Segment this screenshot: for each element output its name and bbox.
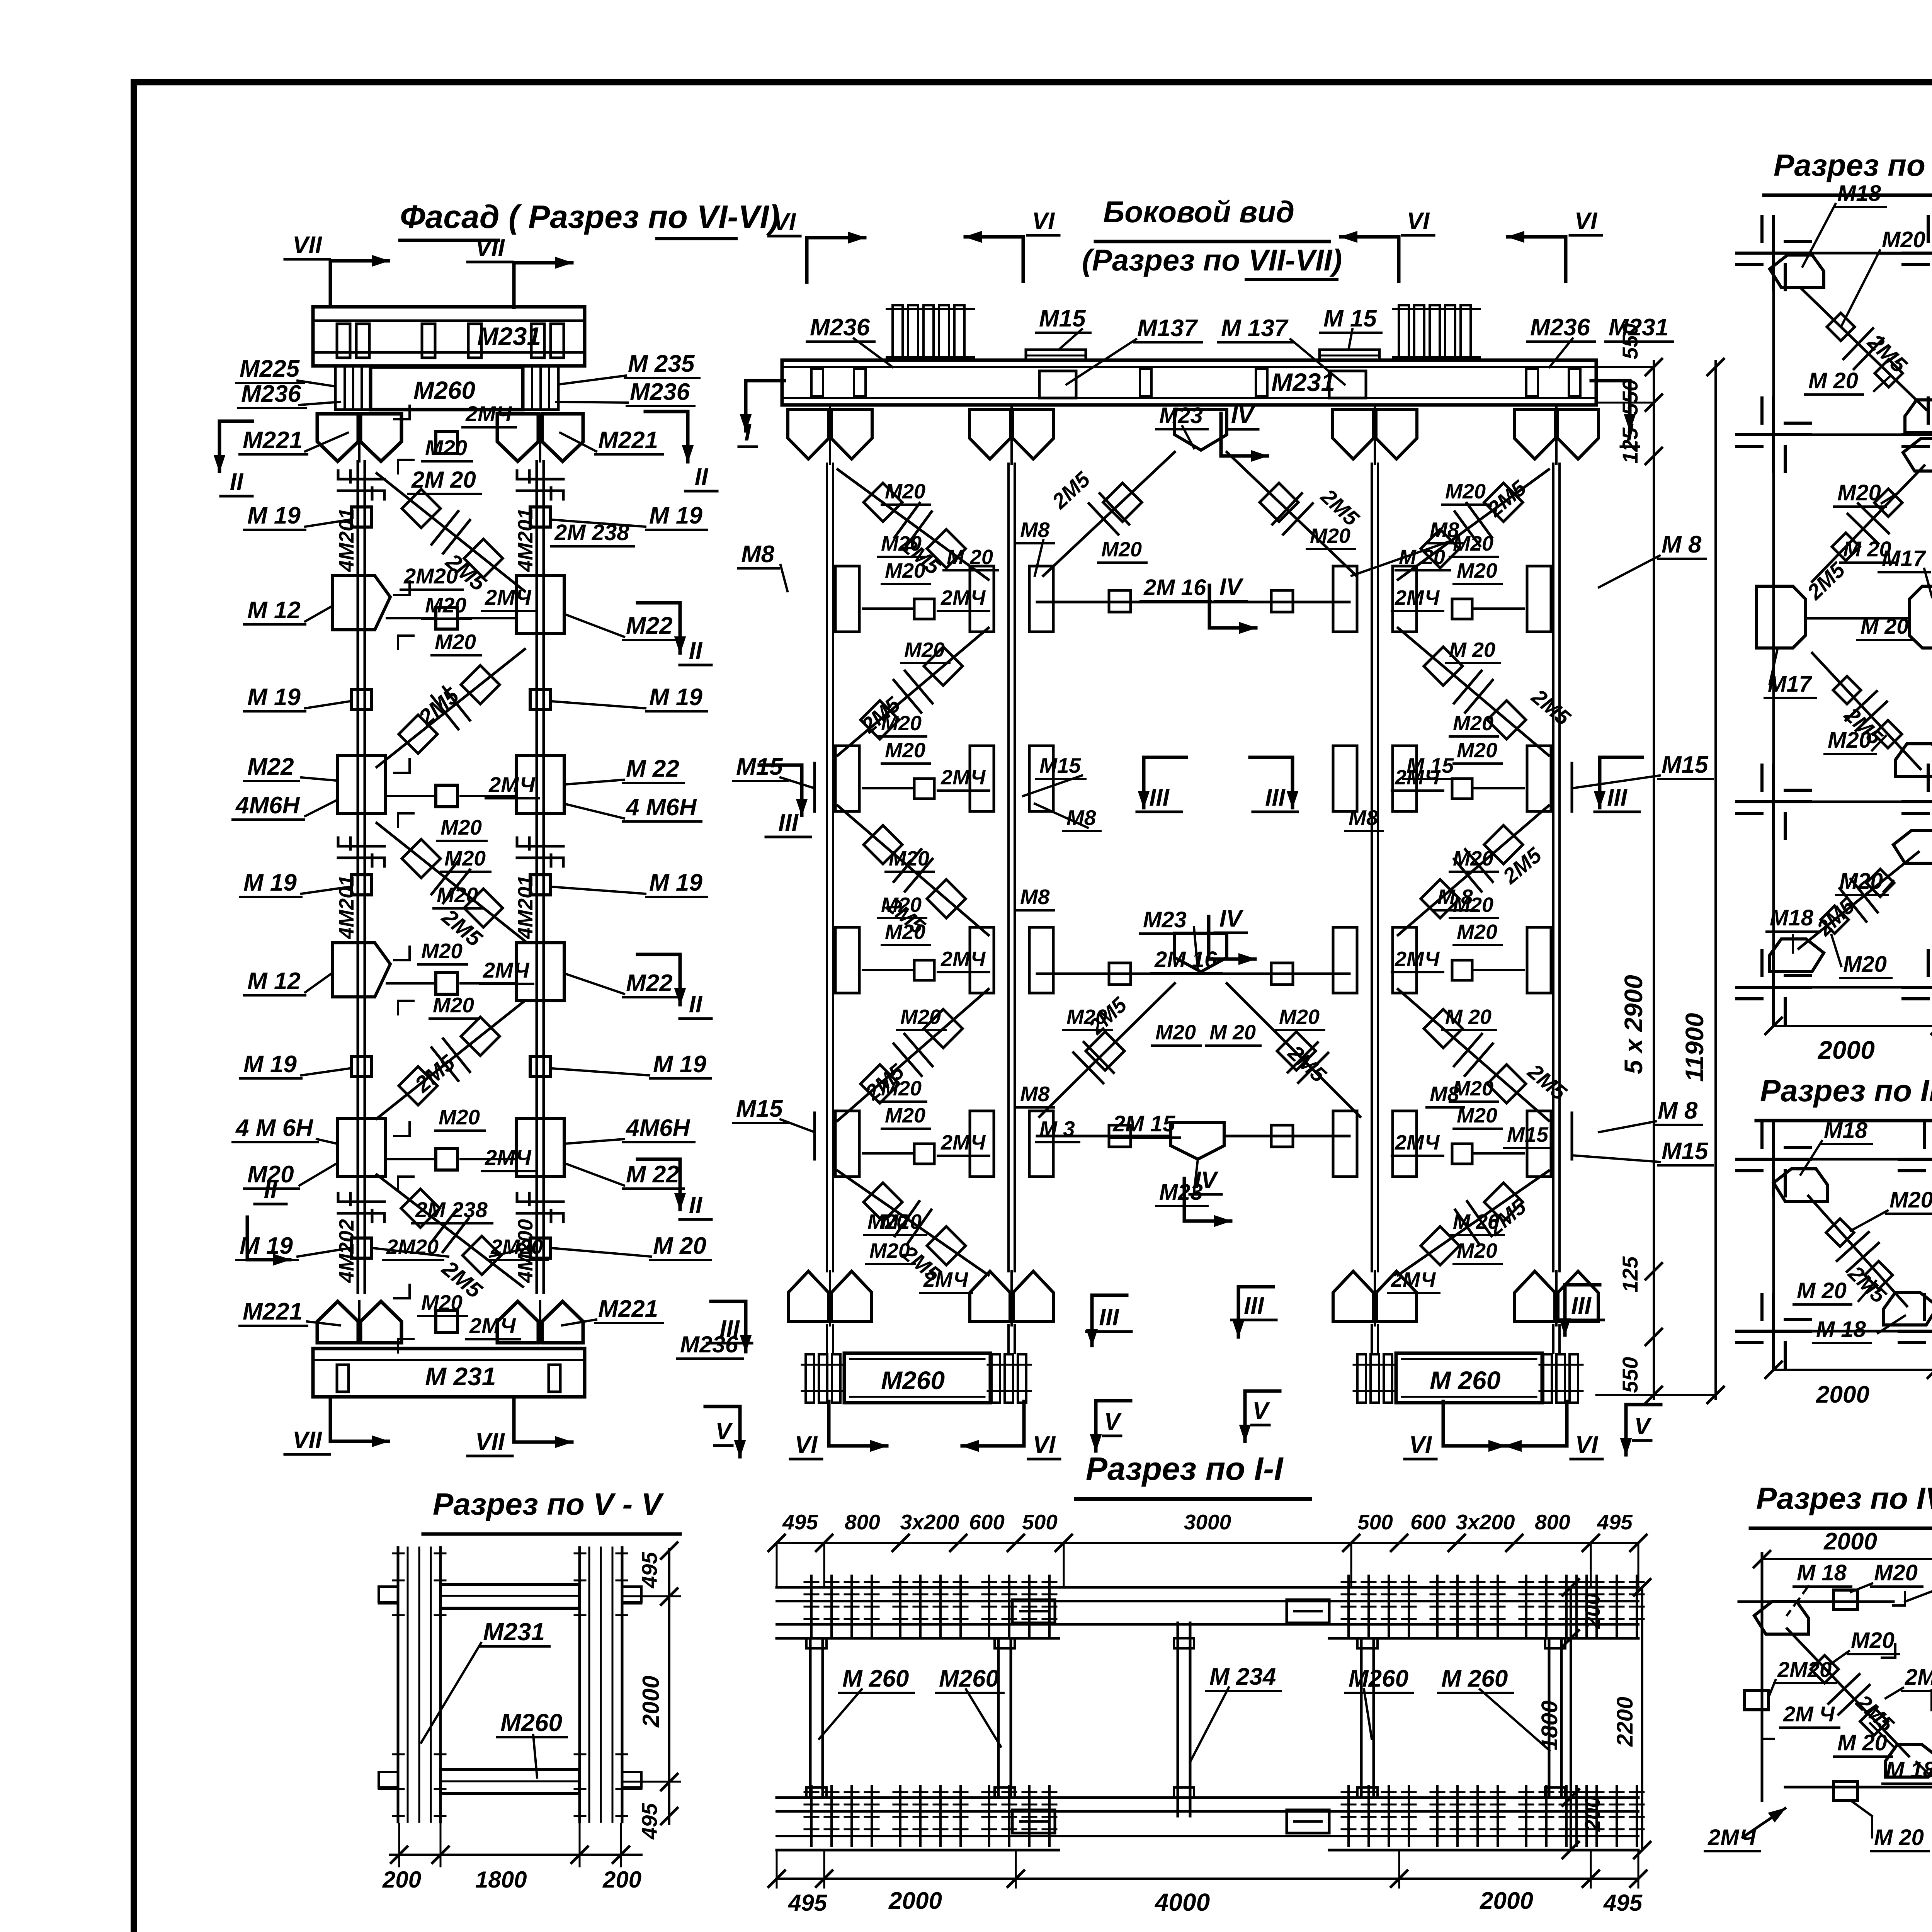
svg-text:II: II xyxy=(689,1192,703,1219)
connector 2МЧ mid xyxy=(436,973,457,994)
svg-text:Разрез по III-III: Разрез по III-III xyxy=(1760,1073,1932,1108)
diagonal brace 2М5 right panel 3 (Боковой вид) xyxy=(1398,806,1549,935)
svg-text:М221: М221 xyxy=(243,427,303,454)
svg-text:М20: М20 xyxy=(869,1239,910,1262)
node М20 on brace xyxy=(927,1226,966,1265)
М18 pad a xyxy=(1770,255,1824,287)
svg-text:4М200: 4М200 xyxy=(514,1219,537,1283)
svg-text:2М 238: 2М 238 xyxy=(415,1197,488,1222)
connector 2МЧ mid xyxy=(436,1148,457,1170)
svg-text:М18: М18 xyxy=(1770,905,1814,930)
svg-text:М260: М260 xyxy=(881,1366,945,1395)
svg-text:600: 600 xyxy=(969,1510,1005,1534)
horizontal strut row xyxy=(387,617,433,619)
svg-text:4М201: 4М201 xyxy=(335,875,358,939)
I-I splice connectors middle xyxy=(1012,1600,1055,1623)
svg-text:2М20: 2М20 xyxy=(1777,1657,1832,1682)
svg-text:М 19: М 19 xyxy=(649,869,702,896)
svg-text:М15: М15 xyxy=(1039,753,1081,777)
section II-II diagonal 3 xyxy=(1812,653,1920,769)
svg-text:125: 125 xyxy=(1618,1256,1642,1293)
svg-text:2М20: 2М20 xyxy=(403,564,458,588)
column splice symbols xyxy=(338,845,384,848)
node М20 on brace xyxy=(924,647,963,685)
svg-text:М23: М23 xyxy=(1143,907,1187,932)
node М20 on diagonal xyxy=(461,665,500,704)
svg-text:II: II xyxy=(264,1177,278,1203)
svg-text:М8: М8 xyxy=(1430,1082,1459,1106)
bearing block М221 right (bell pair) xyxy=(497,414,538,461)
svg-text:Разрез по II-II: Разрез по II-II xyxy=(1774,148,1932,182)
svg-text:800: 800 xyxy=(1535,1510,1570,1534)
svg-text:М8: М8 xyxy=(1349,806,1378,830)
svg-text:4М201: 4М201 xyxy=(514,875,537,939)
svg-text:М20: М20 xyxy=(1874,1560,1918,1585)
node М20 on brace xyxy=(1421,529,1459,568)
svg-text:М 18: М 18 xyxy=(1797,1560,1847,1585)
svg-text:М15: М15 xyxy=(1507,1122,1549,1146)
svg-text:М 20: М 20 xyxy=(947,546,993,569)
svg-text:М20: М20 xyxy=(1445,480,1486,503)
svg-text:550: 550 xyxy=(1618,379,1642,415)
svg-text:Разрез по V - V: Разрез по V - V xyxy=(433,1487,664,1521)
horizontal strut 2М16 level1 xyxy=(1037,601,1349,604)
jack element М15 (right) xyxy=(1320,350,1379,361)
М18 pad f xyxy=(1770,939,1824,971)
svg-text:М 20: М 20 xyxy=(1808,368,1858,393)
dimension 5x2900 / 11900 right of middle view xyxy=(1653,361,1655,1399)
I-I top dimension line xyxy=(777,1542,1638,1544)
diagonal brace 2М5 left panel 4 (Боковой вид) xyxy=(838,989,988,1121)
svg-text:200: 200 xyxy=(602,1867,641,1893)
svg-text:II: II xyxy=(689,638,703,664)
svg-text:М20: М20 xyxy=(1457,739,1497,762)
III-III diagonal xyxy=(1808,1196,1907,1306)
diagonal brace 2М5 right panel 2 (Боковой вид) xyxy=(1398,628,1549,755)
I-I right dims xyxy=(1570,1587,1572,1850)
svg-text:М221: М221 xyxy=(598,1296,658,1322)
svg-text:М 20: М 20 xyxy=(1445,1005,1492,1029)
svg-text:VII: VII xyxy=(475,235,505,261)
svg-text:М20: М20 xyxy=(421,939,463,963)
node М20 on brace xyxy=(927,529,966,568)
svg-text:М 231: М 231 xyxy=(425,1362,496,1391)
svg-text:2МЧ: 2МЧ xyxy=(465,401,512,426)
svg-text:М18: М18 xyxy=(1837,181,1881,206)
svg-text:Разрез по I-I: Разрез по I-I xyxy=(1086,1451,1284,1487)
svg-text:М8: М8 xyxy=(741,541,775,568)
node М20 on brace xyxy=(1487,701,1526,739)
svg-text:5 х 2900: 5 х 2900 xyxy=(1619,975,1648,1074)
cap beam М231 (Боковой вид) xyxy=(782,360,1596,405)
svg-text:2М5: 2М5 xyxy=(1316,484,1364,531)
jack element М15 (left) xyxy=(1026,350,1086,361)
I-beam pile cluster above beam (left) xyxy=(893,305,903,359)
corner cross xyxy=(1737,986,1810,989)
svg-text:200: 200 xyxy=(382,1867,421,1893)
V-V column group flange ticks xyxy=(393,1553,404,1554)
svg-text:М15: М15 xyxy=(1039,305,1086,332)
svg-text:М8: М8 xyxy=(1020,1082,1050,1106)
node М20 on brace xyxy=(1487,1065,1526,1103)
svg-text:М260: М260 xyxy=(1349,1665,1408,1692)
svg-text:495: 495 xyxy=(788,1890,828,1916)
svg-text:1800: 1800 xyxy=(475,1867,527,1893)
svg-text:2М5: 2М5 xyxy=(1498,842,1546,888)
node М20 on brace xyxy=(864,1183,902,1221)
svg-text:М20: М20 xyxy=(1457,559,1497,582)
V-V bottom beam М260 xyxy=(440,1770,580,1794)
gusset М22 left column xyxy=(337,755,385,813)
bearing block М221 bottom-left (bell pair) xyxy=(317,1301,358,1343)
svg-text:3000: 3000 xyxy=(1184,1510,1231,1534)
svg-text:495: 495 xyxy=(1597,1510,1633,1534)
node М20 xyxy=(1874,720,1902,748)
connector М19 right column xyxy=(530,1056,550,1077)
centre V brace lower left xyxy=(1039,983,1175,1117)
svg-text:М 20: М 20 xyxy=(1453,1210,1499,1233)
svg-text:4 М 6Н: 4 М 6Н xyxy=(235,1115,313,1141)
node М20 on brace xyxy=(1424,647,1463,685)
svg-text:2МЧ: 2МЧ xyxy=(485,1145,532,1170)
I-I I-beam tick clusters top xyxy=(810,1576,813,1636)
М18 pad b xyxy=(1905,400,1932,432)
svg-text:М 8: М 8 xyxy=(1658,1097,1698,1124)
svg-text:М8: М8 xyxy=(1020,518,1050,542)
М18 pad tl xyxy=(1774,1169,1828,1201)
node М20 on brace xyxy=(1484,483,1523,522)
gusset М22 left column xyxy=(337,1119,385,1177)
svg-text:III: III xyxy=(1149,784,1170,811)
hanger bell М23 centre top xyxy=(1175,410,1227,450)
svg-text:VII: VII xyxy=(293,1427,323,1454)
cap beam М231 (top, left view) xyxy=(313,307,585,366)
svg-text:М 12: М 12 xyxy=(247,597,301,624)
svg-text:М225: М225 xyxy=(240,355,300,382)
svg-text:2000: 2000 xyxy=(1823,1528,1877,1555)
svg-text:VI: VI xyxy=(795,1432,818,1458)
svg-text:М 19: М 19 xyxy=(247,684,301,711)
V-V outer tabs xyxy=(379,1587,398,1602)
svg-text:3х200: 3х200 xyxy=(1456,1510,1515,1534)
svg-text:М 8: М 8 xyxy=(1662,531,1702,558)
node М20 on diagonal xyxy=(402,839,440,878)
svg-text:М137: М137 xyxy=(1137,315,1198,342)
hanger bell М23 level3 centre xyxy=(1175,933,1227,972)
connector М19 left column xyxy=(351,1056,371,1077)
gusset М12 left column xyxy=(332,576,390,630)
connector 2МЧ mid xyxy=(436,785,457,807)
centre V brace upper left xyxy=(1043,452,1175,576)
svg-text:2МЧ: 2МЧ xyxy=(1708,1825,1757,1850)
svg-text:125: 125 xyxy=(1618,427,1642,464)
section II-II diagonal 4 xyxy=(1799,852,1918,949)
svg-text:2МЧ: 2МЧ xyxy=(1905,1665,1932,1690)
diagonal brace 2М5 panel 4 (Фасад) xyxy=(377,1001,525,1119)
svg-text:М20: М20 xyxy=(889,847,929,870)
svg-text:2000: 2000 xyxy=(1817,1036,1875,1064)
svg-text:II: II xyxy=(689,991,703,1018)
М18 pad e xyxy=(1893,831,1932,863)
diagonal brace 2М5 panel 5 (Фасад) xyxy=(377,1175,523,1287)
svg-text:495: 495 xyxy=(782,1510,818,1534)
svg-text:V: V xyxy=(715,1418,733,1445)
corner cross xyxy=(1737,252,1810,255)
node М20 xyxy=(1875,359,1903,387)
svg-text:М 20: М 20 xyxy=(1861,614,1909,638)
bearing block М221 left (bell pair) xyxy=(317,414,358,461)
svg-text:М221: М221 xyxy=(243,1298,303,1325)
svg-text:М20: М20 xyxy=(1828,728,1871,753)
svg-text:М 19: М 19 xyxy=(247,502,301,529)
diagonal brace 2М5 left panel 2 (Боковой вид) xyxy=(838,628,988,755)
svg-text:М 20: М 20 xyxy=(1399,546,1445,569)
horizontal strut row xyxy=(387,1158,433,1160)
svg-text:2М 16: 2М 16 xyxy=(1143,575,1206,600)
svg-text:IV: IV xyxy=(1219,905,1244,932)
connector М19 right column xyxy=(530,507,550,527)
diagonal brace 2М5 left panel 5 (Боковой вид) xyxy=(838,1171,988,1275)
2МЧ connector squares level xyxy=(914,599,934,619)
horizontal strut 2М15 level4 xyxy=(1037,1135,1171,1138)
svg-text:495: 495 xyxy=(1603,1890,1643,1916)
М8 gusset row level 3 xyxy=(835,927,859,993)
svg-text:2МЧ: 2МЧ xyxy=(483,958,530,982)
svg-text:495: 495 xyxy=(637,1803,662,1840)
svg-text:600: 600 xyxy=(1410,1510,1446,1534)
svg-text:М 22: М 22 xyxy=(626,1161,679,1188)
gusset М22 right column xyxy=(516,755,564,813)
svg-text:М20: М20 xyxy=(440,815,482,839)
V-V left column group (I-beam plan) xyxy=(397,1548,400,1822)
2МЧ connector squares level xyxy=(914,779,934,799)
svg-text:М 235: М 235 xyxy=(628,350,695,377)
svg-text:М20: М20 xyxy=(1889,1187,1932,1213)
section II-II level lines xyxy=(1747,252,1932,255)
svg-text:М20: М20 xyxy=(433,993,474,1017)
svg-text:2МЧ: 2МЧ xyxy=(940,766,986,789)
svg-text:М236: М236 xyxy=(241,381,301,407)
svg-text:VII: VII xyxy=(475,1429,505,1455)
svg-text:М20: М20 xyxy=(425,435,467,460)
svg-text:1800: 1800 xyxy=(1537,1701,1562,1750)
svg-text:4М202: 4М202 xyxy=(335,1219,358,1283)
I-beam stacks beside М260 bases xyxy=(806,1354,814,1403)
right column of tower (Фасад) xyxy=(536,461,538,1293)
connector М19 left column xyxy=(351,507,371,527)
М8 gusset row level 1 xyxy=(835,566,859,632)
column 2 (Боковой вид) xyxy=(1007,464,1010,1271)
М18 pad d xyxy=(1895,744,1932,776)
node М20 on brace xyxy=(924,1009,963,1048)
svg-text:II: II xyxy=(695,464,709,490)
jack element М137 (left) xyxy=(1039,371,1076,398)
svg-text:М 137: М 137 xyxy=(1221,315,1289,342)
svg-text:М20: М20 xyxy=(1453,712,1493,735)
svg-text:IV: IV xyxy=(1231,402,1255,429)
node М20 xyxy=(1833,676,1861,704)
М18 pad c xyxy=(1903,439,1932,471)
section III-III frame xyxy=(1772,1138,1775,1360)
svg-text:2М5: 2М5 xyxy=(1527,684,1575,730)
svg-text:11900: 11900 xyxy=(1680,1013,1709,1082)
column stubs into base blocks xyxy=(826,1325,828,1353)
svg-text:М20: М20 xyxy=(1882,227,1925,252)
svg-text:М 20: М 20 xyxy=(1874,1825,1924,1850)
svg-text:2МЧ: 2МЧ xyxy=(940,586,986,609)
node М20 on brace xyxy=(1424,1009,1463,1048)
svg-text:III: III xyxy=(1244,1293,1264,1319)
svg-text:М 234: М 234 xyxy=(1209,1663,1276,1690)
node М20 on diagonal xyxy=(399,1066,437,1105)
2МЧ connector squares level xyxy=(914,960,934,980)
svg-text:М 20: М 20 xyxy=(1449,638,1495,662)
node М20 on diagonal xyxy=(463,1236,501,1275)
svg-text:М15: М15 xyxy=(1662,1138,1709,1165)
corner cross xyxy=(1737,433,1810,436)
svg-text:V: V xyxy=(1252,1398,1270,1424)
М8 gusset row level 4 xyxy=(835,1111,859,1177)
svg-text:М 260: М 260 xyxy=(1430,1366,1501,1395)
svg-text:М 260: М 260 xyxy=(1441,1665,1508,1692)
svg-text:2М5: 2М5 xyxy=(1523,1059,1571,1105)
svg-text:III: III xyxy=(1571,1293,1592,1319)
svg-text:2МЧ: 2МЧ xyxy=(923,1268,969,1291)
svg-text:2М5: 2М5 xyxy=(1802,557,1850,604)
svg-text:4М6Н: 4М6Н xyxy=(235,792,300,819)
base block М260 (left pair) xyxy=(844,1353,990,1403)
svg-text:М260: М260 xyxy=(500,1709,562,1736)
svg-text:2МЧ: 2МЧ xyxy=(1395,1131,1440,1154)
base block М260 (right pair) xyxy=(1396,1353,1542,1403)
I-I columns М260/М234 xyxy=(809,1638,812,1798)
gusset М22 right column xyxy=(516,576,564,634)
svg-text:4000: 4000 xyxy=(1154,1888,1210,1916)
svg-text:М 22: М 22 xyxy=(626,755,679,782)
svg-text:М15: М15 xyxy=(1662,752,1709,778)
node М20 xyxy=(1832,533,1860,561)
dim 2000 bottom (III-III) xyxy=(1774,1369,1932,1371)
svg-text:М20: М20 xyxy=(1101,538,1142,561)
connector М20 squares bottom row xyxy=(351,1238,371,1258)
svg-text:М20: М20 xyxy=(885,480,925,503)
svg-text:VI: VI xyxy=(1575,1432,1599,1458)
left column of tower (Фасад) xyxy=(357,461,359,1293)
svg-text:М236: М236 xyxy=(630,379,690,405)
svg-text:IV: IV xyxy=(1219,574,1244,600)
svg-text:2М 15: 2М 15 xyxy=(1112,1111,1175,1136)
svg-text:М22: М22 xyxy=(626,970,673,997)
node М20 xyxy=(1874,489,1902,517)
node М20 on diagonal xyxy=(464,889,503,927)
svg-text:М 20: М 20 xyxy=(1843,537,1891,561)
svg-text:550: 550 xyxy=(1618,323,1642,359)
М18 pad tl (IV-IV) xyxy=(1754,1602,1808,1634)
I-beam pile cluster above beam (right) xyxy=(1399,305,1409,359)
svg-text:М 19: М 19 xyxy=(243,869,297,896)
base beam М231 (bottom, left view) xyxy=(313,1349,585,1397)
node М20 on brace xyxy=(864,483,902,522)
diagonal brace 2М5 right panel 5 (Боковой вид) xyxy=(1398,1171,1549,1275)
svg-text:(Разрез по VII-VII): (Разрез по VII-VII) xyxy=(1082,243,1342,277)
svg-text:М20: М20 xyxy=(867,1210,908,1233)
bottom hanger bells (Боковой вид) xyxy=(788,1271,828,1321)
svg-text:V: V xyxy=(1634,1413,1652,1440)
svg-text:М20: М20 xyxy=(444,846,486,870)
svg-text:М236: М236 xyxy=(1530,314,1590,341)
svg-text:III: III xyxy=(1099,1304,1119,1331)
svg-text:М221: М221 xyxy=(598,427,658,454)
connector squares on edges (IV-IV) xyxy=(1745,1690,1769,1710)
node М20 on diagonal xyxy=(402,489,440,528)
svg-text:М20: М20 xyxy=(437,883,478,907)
node М20 on diagonal xyxy=(461,1017,500,1056)
svg-text:500: 500 xyxy=(1022,1510,1058,1534)
svg-text:800: 800 xyxy=(845,1510,880,1534)
connector 2МЧ mid xyxy=(436,432,457,453)
svg-text:М20: М20 xyxy=(900,1005,941,1029)
svg-text:М20: М20 xyxy=(1457,1239,1497,1262)
node М20 on brace xyxy=(861,701,899,739)
dim 2000 top (IV-IV) xyxy=(1762,1558,1932,1560)
horizontal strut 2М16 level3 xyxy=(1037,973,1349,975)
2МЧ connector squares level xyxy=(914,1144,934,1164)
node М20 xyxy=(1866,869,1894,897)
М17 block right xyxy=(1910,586,1932,648)
svg-text:Боковой вид: Боковой вид xyxy=(1103,195,1294,229)
svg-text:М20: М20 xyxy=(1839,869,1883,894)
column 1 (Боковой вид) xyxy=(826,464,828,1271)
svg-text:М260: М260 xyxy=(413,376,475,404)
svg-text:V: V xyxy=(1104,1408,1122,1435)
svg-text:4 М6Н: 4 М6Н xyxy=(625,794,697,821)
svg-text:М 15: М 15 xyxy=(1323,305,1377,332)
svg-text:2200: 2200 xyxy=(1612,1697,1638,1747)
svg-text:М231: М231 xyxy=(483,1618,545,1646)
horizontal strut row xyxy=(387,795,433,797)
column splice symbols xyxy=(338,478,384,481)
М18 pad br xyxy=(1884,1293,1932,1325)
node М20 on diagonal xyxy=(464,539,503,578)
svg-text:2МЧ: 2МЧ xyxy=(940,947,986,971)
svg-text:II: II xyxy=(230,469,244,495)
svg-text:2000: 2000 xyxy=(1480,1888,1533,1914)
section II-II diagonal 1 xyxy=(1801,288,1926,410)
svg-text:2МЧ: 2МЧ xyxy=(1391,1268,1436,1291)
svg-text:2М5: 2М5 xyxy=(414,683,464,730)
svg-text:М 20: М 20 xyxy=(1209,1021,1256,1044)
svg-text:2М 238: 2М 238 xyxy=(554,520,629,545)
svg-text:М20: М20 xyxy=(435,630,476,654)
mid strut II-II xyxy=(1805,617,1910,620)
svg-text:2М5: 2М5 xyxy=(1482,475,1531,521)
svg-text:М20: М20 xyxy=(425,593,466,617)
node М20 on brace xyxy=(927,879,966,918)
svg-text:М 19: М 19 xyxy=(649,684,702,711)
svg-text:М18: М18 xyxy=(1824,1118,1868,1143)
svg-text:III: III xyxy=(778,810,799,836)
svg-text:2МЧ: 2МЧ xyxy=(1395,586,1440,609)
svg-text:М260: М260 xyxy=(939,1665,999,1692)
column 3 (Боковой вид) xyxy=(1371,464,1373,1271)
svg-text:Фасад ( Разрез по VI-VI): Фасад ( Разрез по VI-VI) xyxy=(400,199,780,235)
svg-text:М 19: М 19 xyxy=(653,1051,706,1078)
svg-text:М20: М20 xyxy=(439,1105,480,1129)
horizontal strut row xyxy=(387,982,433,985)
svg-text:VI: VI xyxy=(1575,208,1598,235)
svg-text:2МЧ: 2МЧ xyxy=(940,1131,986,1154)
svg-text:М8: М8 xyxy=(1020,885,1050,909)
